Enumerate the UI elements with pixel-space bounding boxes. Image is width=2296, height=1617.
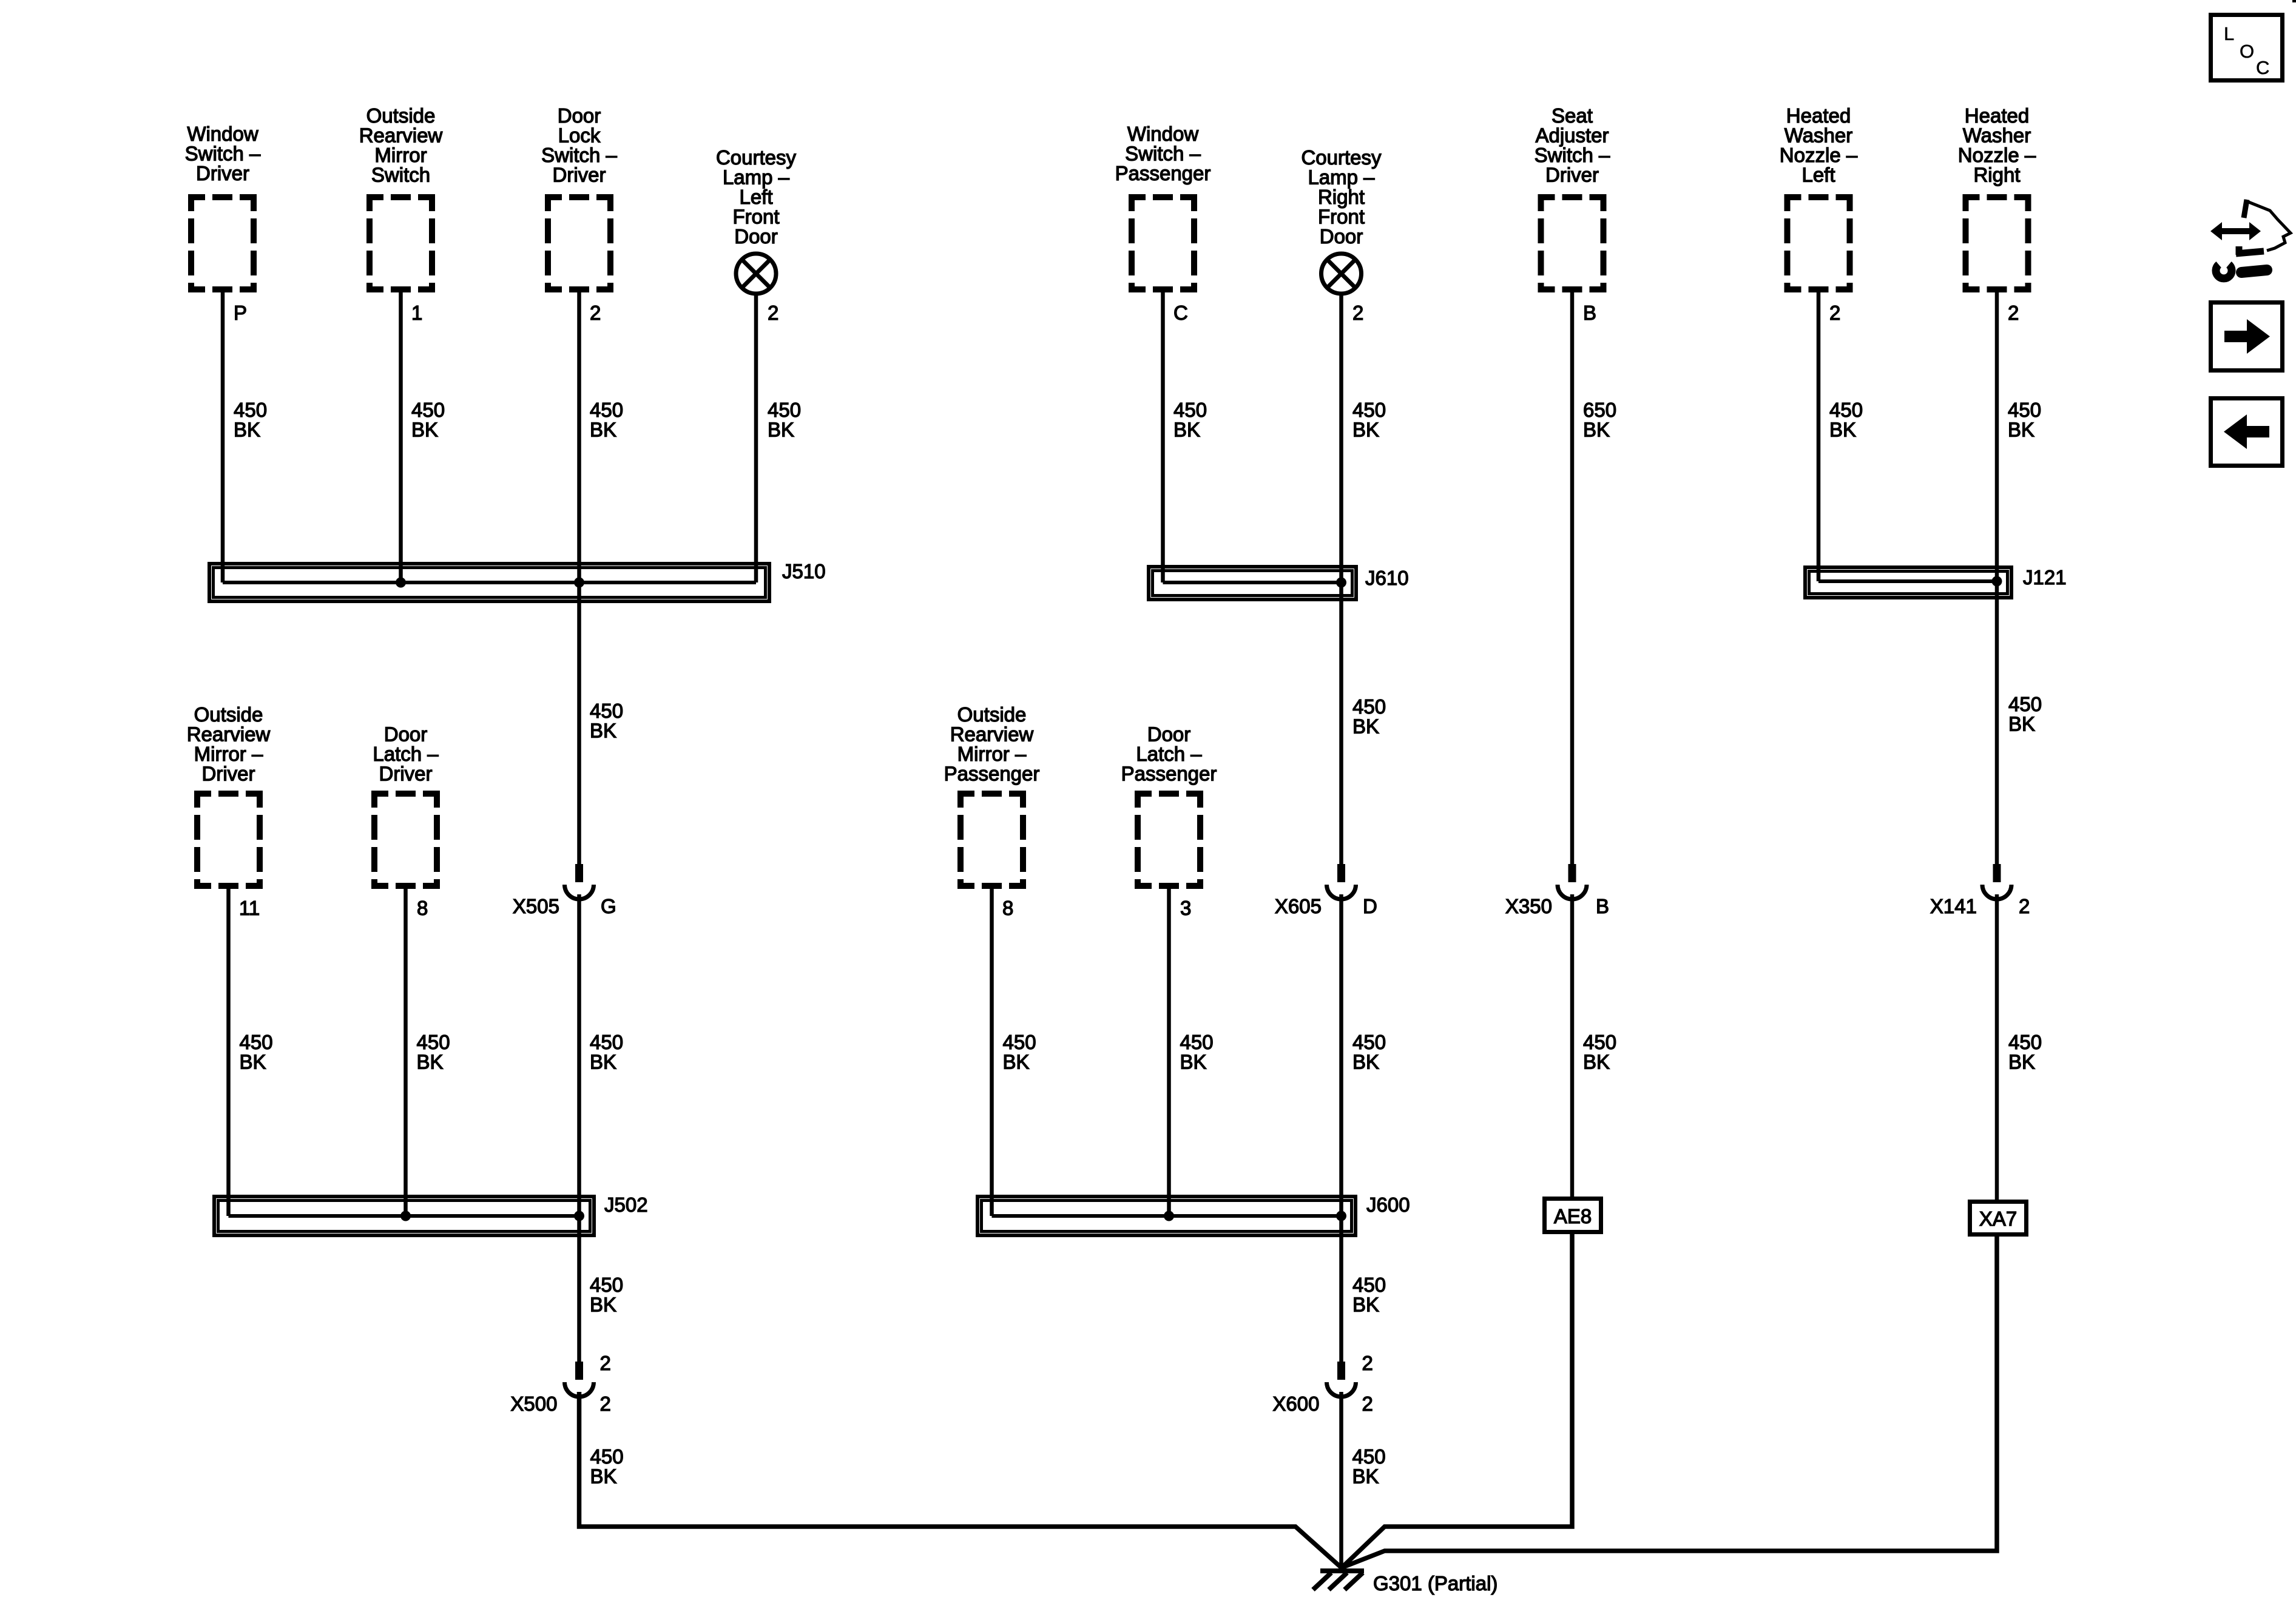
svg-text:11: 11 (239, 897, 260, 919)
splice J600 (977, 1197, 1356, 1235)
wire Heated Washer Nozzle Right pin 2 to X141 (1995, 292, 1999, 864)
junction dot J610 (1336, 578, 1346, 588)
wire Heated Washer Nozzle Left pin 2 to J121 (1817, 292, 1821, 581)
connector X350 pin B (1568, 864, 1576, 882)
svg-text:2: 2 (2019, 895, 2030, 917)
wire Door Latch Driver pin 8 to J502 (403, 889, 408, 1216)
wire Seat Adjuster Switch pin B to X350 (1570, 292, 1575, 864)
service icon wrench with arrows (2210, 200, 2291, 279)
svg-text:L: L (2224, 23, 2234, 44)
page corner mark (2292, 0, 2296, 2)
wire Courtesy Lamp Right to X605 (1339, 294, 1343, 864)
junction dot J600 wire 2 (1336, 1211, 1346, 1221)
svg-text:G: G (601, 895, 616, 917)
svg-text:D: D (1363, 895, 1377, 917)
svg-text:3: 3 (1180, 897, 1191, 919)
connector X605 pin D (1337, 864, 1345, 882)
svg-text:X605: X605 (1275, 895, 1322, 917)
svg-text:X350: X350 (1505, 895, 1552, 917)
nav arrow left box (2211, 399, 2283, 466)
component box Door Latch - Driver (371, 791, 440, 797)
splice J121 (1805, 567, 2011, 598)
svg-text:J510: J510 (782, 560, 826, 582)
connector X505 pin G (575, 864, 583, 882)
wire Window Switch Driver pin P to J510 (221, 292, 225, 582)
svg-text:X505: X505 (513, 895, 559, 917)
wire Outside Rearview Mirror Switch pin 1 to J510 (399, 292, 403, 582)
svg-text:2: 2 (1362, 1352, 1373, 1374)
component box Window Switch - Passenger (1129, 194, 1197, 200)
splice J510 (209, 564, 769, 601)
wire X500 to ground G301 (579, 1392, 1342, 1568)
svg-text:C: C (1173, 302, 1188, 324)
junction dot J502 wire 2 (574, 1211, 584, 1221)
wire Door Lock Switch Driver pin 2 to X505 (577, 292, 581, 864)
svg-text:X500: X500 (510, 1393, 557, 1415)
wire Window Switch Passenger pin C to J610 (1161, 292, 1165, 582)
connector X600 pin 2 (1337, 1362, 1345, 1380)
wire X350 to AE8 (1570, 894, 1575, 1198)
wire X605 to J600 to X600 (1339, 894, 1343, 1362)
svg-text:OutsideRearviewMirror –Passeng: OutsideRearviewMirror –Passenger (944, 703, 1040, 785)
junction dot J510 wire 1 (396, 578, 406, 588)
svg-text:J502: J502 (604, 1193, 648, 1216)
connector X500 pin 2 (575, 1362, 583, 1380)
svg-text:J600: J600 (1366, 1193, 1410, 1216)
component box Outside Rearview Mirror Switch (366, 194, 435, 200)
wire Courtesy Lamp Left to J510 (754, 294, 758, 582)
wire Outside Rearview Mirror Passenger pin 8 to J600 (990, 889, 994, 1216)
nav arrow right box (2211, 303, 2283, 371)
terminal XA7 (1970, 1202, 2027, 1235)
component box Outside Rearview Mirror - Passenger (957, 791, 1026, 797)
svg-text:WindowSwitch –Passenger: WindowSwitch –Passenger (1115, 123, 1211, 184)
svg-text:J610: J610 (1365, 567, 1409, 589)
lamp Courtesy Lamp - Right Front Door (1322, 254, 1362, 294)
svg-text:X141: X141 (1930, 895, 1977, 917)
ground G301 symbol (1320, 1568, 1364, 1573)
lamp Courtesy Lamp - Left Front Door (736, 254, 776, 294)
svg-text:C: C (2256, 57, 2269, 78)
svg-text:2: 2 (590, 302, 601, 324)
svg-text:8: 8 (417, 897, 428, 919)
junction dot J600 wire 1 (1164, 1211, 1174, 1221)
svg-text:J121: J121 (2023, 566, 2067, 589)
svg-text:2: 2 (1829, 302, 1840, 324)
component box Seat Adjuster Switch - Driver (1538, 194, 1607, 200)
wire X505 to J502 to X500 (577, 894, 581, 1362)
junction dot J121 (1992, 576, 2002, 587)
component box Heated Washer Nozzle - Right (1963, 194, 2031, 200)
wire Door Latch Passenger pin 3 to J600 (1167, 889, 1171, 1216)
wire AE8 to ground G301 (1342, 1232, 1572, 1568)
wire Outside Rearview Mirror Driver pin 11 to J502 (226, 889, 231, 1216)
svg-text:O: O (2240, 41, 2254, 62)
junction dot J502 wire 1 (400, 1211, 411, 1221)
svg-text:2: 2 (2008, 302, 2019, 324)
wire XA7 to ground G301 (1343, 1235, 1997, 1567)
svg-text:2: 2 (768, 302, 778, 324)
svg-text:XA7: XA7 (1979, 1207, 2017, 1230)
junction dot J510 wire 2 (574, 578, 584, 588)
svg-text:G301 (Partial): G301 (Partial) (1373, 1572, 1497, 1595)
wire X141 to XA7 (1995, 894, 1999, 1201)
svg-text:1: 1 (411, 302, 422, 324)
connector X141 pin 2 (1993, 864, 2001, 882)
splice J502 (214, 1197, 594, 1235)
splice J610 (1149, 567, 1356, 599)
svg-text:8: 8 (1002, 897, 1013, 919)
component box Window Switch - Driver (188, 194, 257, 200)
svg-text:OutsideRearviewMirrorSwitch: OutsideRearviewMirrorSwitch (359, 104, 443, 186)
svg-text:2: 2 (1352, 302, 1363, 324)
svg-text:2: 2 (600, 1393, 611, 1415)
svg-text:B: B (1583, 302, 1596, 324)
svg-text:B: B (1596, 895, 1609, 917)
wire X600 to ground G301 (1339, 1392, 1343, 1568)
svg-text:2: 2 (600, 1352, 611, 1374)
component box Heated Washer Nozzle - Left (1784, 194, 1853, 200)
component box Outside Rearview Mirror - Driver (194, 791, 263, 797)
svg-text:AE8: AE8 (1554, 1205, 1592, 1227)
component box Door Latch - Passenger (1135, 791, 1203, 797)
svg-text:2: 2 (1362, 1393, 1373, 1415)
terminal AE8 (1545, 1199, 1601, 1232)
svg-text:P: P (234, 302, 247, 324)
LOC legend box (2211, 15, 2283, 81)
svg-text:X600: X600 (1272, 1393, 1319, 1415)
component box Door Lock Switch - Driver (545, 194, 613, 200)
